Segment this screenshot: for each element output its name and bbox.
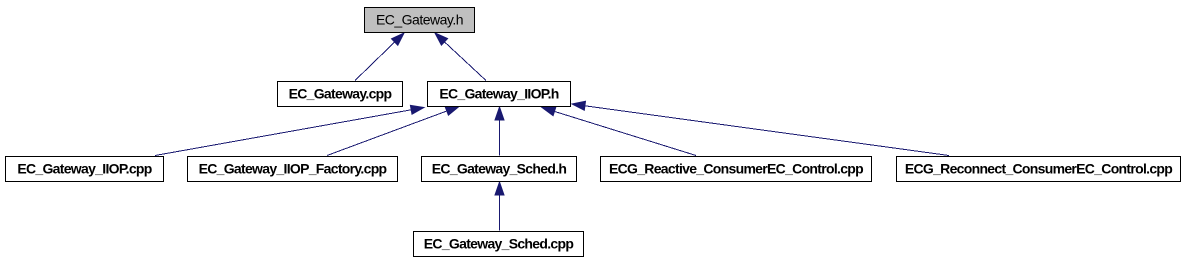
svg-text:ECG_Reconnect_ConsumerEC_Contr: ECG_Reconnect_ConsumerEC_Control.cpp bbox=[905, 161, 1172, 177]
svg-text:EC_Gateway_IIOP_Factory.cpp: EC_Gateway_IIOP_Factory.cpp bbox=[199, 161, 387, 177]
svg-text:EC_Gateway_IIOP.cpp: EC_Gateway_IIOP.cpp bbox=[17, 161, 151, 177]
svg-text:EC_Gateway_Sched.cpp: EC_Gateway_Sched.cpp bbox=[424, 236, 574, 252]
svg-text:EC_Gateway.h: EC_Gateway.h bbox=[376, 12, 463, 28]
svg-text:EC_Gateway.cpp: EC_Gateway.cpp bbox=[289, 86, 392, 102]
svg-text:EC_Gateway_IIOP.h: EC_Gateway_IIOP.h bbox=[439, 86, 558, 102]
svg-text:ECG_Reactive_ConsumerEC_Contro: ECG_Reactive_ConsumerEC_Control.cpp bbox=[609, 161, 863, 177]
svg-text:EC_Gateway_Sched.h: EC_Gateway_Sched.h bbox=[432, 161, 567, 177]
